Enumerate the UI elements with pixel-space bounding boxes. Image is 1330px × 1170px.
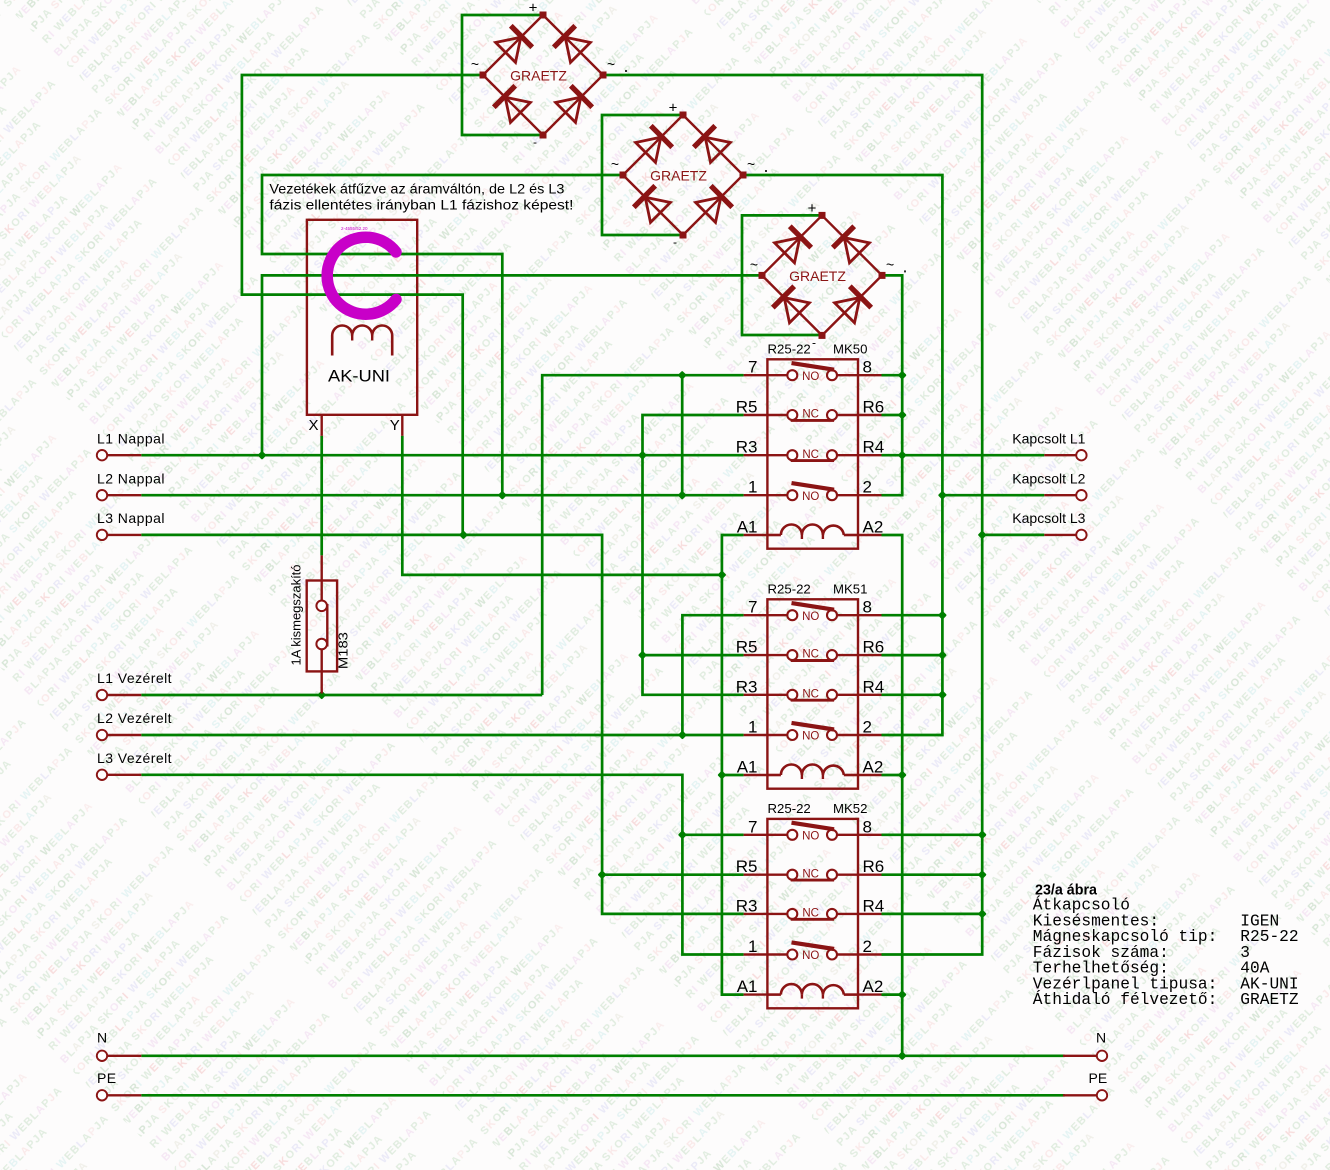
junction node at 942.4,655.1 bbox=[938, 651, 947, 660]
svg-text:X: X bbox=[308, 417, 318, 434]
svg-text:A1: A1 bbox=[737, 758, 758, 777]
junction node at 682.4,735 bbox=[678, 730, 687, 739]
svg-text:L2 Nappal: L2 Nappal bbox=[97, 470, 165, 486]
wire: N bus bbox=[141, 1054, 1064, 1057]
junction node at 602.1,874.7 bbox=[598, 870, 607, 879]
terminal L3 Nappal bbox=[97, 510, 165, 540]
svg-text:R3: R3 bbox=[736, 438, 758, 457]
junction node at 642.5,655.1 bbox=[638, 651, 647, 660]
diode D3 of G2 (upper-right) bbox=[705, 137, 730, 162]
svg-text:A2: A2 bbox=[863, 977, 884, 996]
wire: MK50/MK51 NC feed from L1 Nappal (R5/R3 chain) bbox=[643, 415, 744, 695]
MK52 contact R3-R4 (NC) bbox=[744, 913, 768, 915]
svg-text:fázis ellentétes irányban L1 f: fázis ellentétes irányban L1 fázishoz ké… bbox=[269, 197, 573, 212]
junction node at 942.4,694.8 bbox=[938, 690, 947, 699]
svg-text:7: 7 bbox=[748, 598, 757, 617]
wire: MK52 R4 branch bbox=[882, 913, 983, 916]
MK51 contact 7-8 (NO) bbox=[744, 614, 768, 616]
MK50 coil winding bbox=[767, 534, 781, 537]
junction node at 463.4,534.9 bbox=[459, 530, 468, 539]
junction node at 682.4,834.8 bbox=[678, 830, 687, 839]
wire: L1 Nappal bus bbox=[141, 454, 743, 457]
svg-text:R3: R3 bbox=[736, 896, 758, 915]
wire: MK51 R5 branch bbox=[643, 654, 744, 657]
svg-text:A1: A1 bbox=[737, 977, 758, 996]
svg-text:A2: A2 bbox=[863, 518, 884, 537]
svg-text:1A kismegszakító: 1A kismegszakító bbox=[289, 565, 304, 666]
terminal L3 Vezérelt bbox=[97, 750, 172, 780]
junction node at 902.2,455.2 bbox=[898, 451, 907, 460]
junction node at 902.2,775 bbox=[898, 770, 907, 779]
svg-text:~: ~ bbox=[886, 256, 894, 272]
MK50 contact 7-8 (NO) bbox=[744, 374, 768, 376]
wire: L2 Nappal bus bbox=[141, 494, 743, 497]
wire: MK51 A1 branch bbox=[722, 774, 744, 777]
wire: MK51 R6 branch bbox=[882, 654, 943, 657]
junction node at 982.2,534.9 bbox=[978, 530, 987, 539]
MK52 contact 7-8 (NO) bbox=[744, 834, 768, 836]
svg-text:7: 7 bbox=[748, 817, 757, 836]
MK51 contact R3-R4 (NC) bbox=[744, 694, 768, 696]
diode D4 of G1 (lower-right) bbox=[556, 97, 581, 122]
svg-text:N: N bbox=[1096, 1030, 1106, 1046]
svg-text:Kapcsolt L2: Kapcsolt L2 bbox=[1012, 470, 1085, 486]
svg-text:7: 7 bbox=[748, 358, 757, 377]
diode D4 of G2 (lower-right) bbox=[696, 197, 721, 222]
control panel U1 coil symbol bbox=[332, 326, 392, 356]
svg-text:GRAETZ: GRAETZ bbox=[510, 68, 567, 84]
wire: MK51 A2 branch bbox=[882, 774, 903, 777]
svg-text:R5: R5 bbox=[736, 638, 758, 657]
svg-text:L3 Vezérelt: L3 Vezérelt bbox=[97, 750, 172, 766]
wire: L1 Vezerelt riser to MK50 pin 7 bbox=[542, 375, 743, 695]
wire: bridge G2 bypass frame (+ to -) bbox=[602, 115, 683, 235]
svg-text:Áthidaló félvezető:: Áthidaló félvezető: bbox=[1033, 990, 1218, 1009]
MK51 body bbox=[767, 599, 858, 788]
wire: bridge G1 bypass frame (+ to -) bbox=[462, 15, 543, 135]
svg-text:Y: Y bbox=[390, 417, 400, 434]
svg-text:8: 8 bbox=[863, 598, 872, 617]
wire: bridge G3 right ~ down MK50 output column to pin 2 bbox=[882, 275, 903, 495]
svg-text:M183: M183 bbox=[336, 632, 351, 669]
MK51 contact 1-2 (NO) bbox=[744, 734, 768, 736]
svg-text:~: ~ bbox=[750, 256, 758, 272]
wire: L1 Vezerelt bus bbox=[141, 694, 542, 697]
svg-text:NC: NC bbox=[802, 409, 819, 421]
svg-text:-: - bbox=[812, 335, 816, 349]
svg-text:AK-UNI: AK-UNI bbox=[328, 367, 390, 386]
MK52 body bbox=[767, 819, 858, 1008]
terminal pads of G1 bbox=[540, 12, 547, 19]
svg-text:NC: NC bbox=[802, 649, 819, 661]
svg-text:R4: R4 bbox=[863, 438, 885, 457]
svg-text:2-4555/52.20: 2-4555/52.20 bbox=[341, 226, 368, 231]
diode D1 of G3 (lower-left) bbox=[784, 298, 809, 323]
svg-text:R4: R4 bbox=[863, 677, 885, 696]
MK50 body bbox=[767, 359, 858, 548]
svg-text:L2 Vezérelt: L2 Vezérelt bbox=[97, 710, 172, 726]
svg-text:R25-22: R25-22 bbox=[768, 581, 811, 596]
wire: Kapcsolt L2 line bbox=[942, 494, 1044, 497]
svg-text:R4: R4 bbox=[863, 896, 885, 915]
svg-text:~: ~ bbox=[471, 56, 479, 72]
MK50 contact 1-2 (NO) bbox=[744, 494, 768, 496]
junction node at 902.2,375.2 bbox=[898, 371, 907, 380]
wire: bridge G2 left ~ to CT thread to L2 Nappal node bbox=[262, 175, 623, 495]
svg-text:+: + bbox=[808, 200, 817, 217]
current transformer CT ring bbox=[327, 237, 396, 314]
svg-text:R25-22: R25-22 bbox=[768, 341, 811, 356]
wire: L3 Vezerelt bus down to MK52 pins 7 and 1 bbox=[141, 775, 743, 955]
contactor relay MK51 R25-22 bbox=[736, 581, 884, 788]
junction node at 942.4,615.2 bbox=[938, 611, 947, 620]
svg-text:~: ~ bbox=[607, 56, 615, 72]
wire: L3 Nappal bus down to MK52 R5/R3 bbox=[141, 535, 743, 914]
svg-text:Kapcsolt L1: Kapcsolt L1 bbox=[1012, 430, 1085, 446]
svg-text:NO: NO bbox=[802, 950, 819, 962]
terminal Kapcsolt L1 (right) bbox=[1012, 430, 1086, 460]
svg-text:1: 1 bbox=[748, 937, 757, 956]
circuit breaker M183 1A kismegszakito bbox=[321, 555, 323, 600]
svg-text:GRAETZ: GRAETZ bbox=[789, 268, 846, 284]
terminal Kapcsolt L3 (right) bbox=[1012, 510, 1086, 540]
MK52 contact R5-R6 (NC) bbox=[744, 874, 768, 876]
MK50 contact A1-A2 (COIL) bbox=[744, 534, 768, 536]
wire: coil A1 bus from MK50 A1 down to MK52 A1 bbox=[722, 535, 744, 995]
wire: MK52 R6 branch bbox=[882, 873, 983, 876]
terminal L2 Vezérelt bbox=[97, 710, 172, 740]
terminal L1 Vezérelt bbox=[97, 670, 172, 700]
svg-text:PE: PE bbox=[1089, 1070, 1108, 1086]
svg-text:A1: A1 bbox=[737, 518, 758, 537]
terminal N bbox=[97, 1030, 142, 1062]
junction node at 642.5,455.2 bbox=[638, 451, 647, 460]
junction node at 902.2,994.6 bbox=[898, 990, 907, 999]
terminal pads of G2 bbox=[680, 112, 687, 119]
svg-text:R5: R5 bbox=[736, 857, 758, 876]
pin Y stub of U1 bbox=[401, 415, 403, 436]
svg-text:-: - bbox=[533, 135, 537, 149]
terminal PE (right) bbox=[1063, 1070, 1107, 1101]
svg-text:Vezetékek átfűzve az áramváltó: Vezetékek átfűzve az áramváltón, de L2 é… bbox=[269, 181, 564, 196]
svg-text:1: 1 bbox=[748, 718, 757, 737]
svg-text:R3: R3 bbox=[736, 677, 758, 696]
MK50 contact R3-R4 (NC) bbox=[744, 454, 768, 456]
wire: MK51 pin 8 branch bbox=[882, 614, 943, 617]
wire: MK52 R5 branch bbox=[602, 873, 744, 876]
rectifier bridge G2 GRAETZ bbox=[611, 100, 767, 250]
svg-text:MK51: MK51 bbox=[833, 581, 867, 596]
MK52 contact 1-2 (NO) bbox=[744, 953, 768, 955]
wire: MK50 pin7-pin1 tie bbox=[681, 375, 684, 495]
contactor relay MK50 R25-22 bbox=[736, 341, 884, 548]
wire: bridge G3 left ~ to CT thread to L1 Nappal node bbox=[262, 275, 762, 455]
svg-text:NO: NO bbox=[802, 731, 819, 743]
junction node at 902.2,415 bbox=[898, 410, 907, 419]
wire: bridge G1 left ~ to CT thread to L3 Nappal node bbox=[242, 75, 483, 535]
svg-text:PE: PE bbox=[97, 1070, 117, 1086]
junction node at 982.2,913.9 bbox=[978, 909, 987, 918]
svg-text:+: + bbox=[669, 100, 678, 117]
wire: MK51 pin7-pin1 tie bbox=[682, 615, 743, 735]
rectifier bridge G3 GRAETZ bbox=[750, 200, 906, 350]
svg-text:NO: NO bbox=[802, 371, 819, 383]
wire: PE bus bbox=[141, 1094, 1064, 1097]
svg-text:GRAETZ: GRAETZ bbox=[1240, 991, 1299, 1009]
wire: Y output to coil bus bbox=[402, 436, 722, 575]
wire: Kapcsolt L1 line from MK50 R4 bbox=[882, 454, 1045, 457]
MK52 contact A1-A2 (COIL) bbox=[744, 993, 768, 995]
svg-text:GRAETZ: GRAETZ bbox=[650, 168, 707, 184]
svg-text:MK52: MK52 bbox=[833, 801, 867, 816]
MK51 contact R5-R6 (NC) bbox=[744, 654, 768, 656]
wire: X output down to breaker bbox=[320, 436, 323, 556]
junction node at 321.7,695 bbox=[317, 690, 326, 699]
svg-text:R25-22: R25-22 bbox=[768, 801, 811, 816]
svg-text:NC: NC bbox=[802, 868, 819, 880]
terminal pads of G3 bbox=[819, 212, 826, 219]
svg-text:NO: NO bbox=[802, 830, 819, 842]
junction node at 942.4,495.2 bbox=[938, 491, 947, 500]
terminal PE bbox=[97, 1070, 142, 1101]
junction node at 982.2,874.7 bbox=[978, 870, 987, 879]
wire: Kapcsolt L3 line bbox=[982, 534, 1044, 537]
diode D1 of G2 (lower-left) bbox=[645, 197, 670, 222]
terminal Kapcsolt L2 (right) bbox=[1012, 470, 1086, 500]
MK51 contact A1-A2 (COIL) bbox=[744, 774, 768, 776]
svg-text:NC: NC bbox=[802, 449, 819, 461]
terminal L2 Nappal bbox=[97, 470, 165, 500]
svg-text:MK50: MK50 bbox=[833, 341, 867, 356]
diode D4 of G3 (lower-right) bbox=[835, 298, 860, 323]
junction node at 262,455.2 bbox=[257, 451, 266, 460]
junction node at 982.2,834.8 bbox=[978, 830, 987, 839]
svg-text:R5: R5 bbox=[736, 398, 758, 417]
svg-text:NO: NO bbox=[802, 491, 819, 503]
svg-text:NC: NC bbox=[802, 688, 819, 700]
diode D2 of G2 (upper-left) bbox=[636, 137, 661, 162]
diode D1 of G1 (lower-left) bbox=[505, 97, 530, 122]
svg-text:N: N bbox=[97, 1030, 108, 1046]
svg-text:2: 2 bbox=[863, 937, 872, 956]
svg-text:1: 1 bbox=[748, 478, 757, 497]
svg-text:A2: A2 bbox=[863, 758, 884, 777]
junction node at 682.2,375.2 bbox=[678, 371, 687, 380]
wire: MK52 pin 8 branch bbox=[882, 833, 983, 836]
MK50 contact R5-R6 (NC) bbox=[744, 414, 768, 416]
svg-text:L1 Nappal: L1 Nappal bbox=[97, 430, 165, 446]
wire: bridge G2 right ~ down to Kapcsolt L2 node and MK51 output column bbox=[743, 175, 942, 735]
svg-text:R6: R6 bbox=[863, 398, 885, 417]
terminal L1 Nappal bbox=[97, 430, 165, 460]
diode D3 of G3 (upper-right) bbox=[844, 238, 869, 263]
svg-text:R6: R6 bbox=[863, 857, 885, 876]
junction node at 682.2,495.2 bbox=[678, 491, 687, 500]
svg-text:NO: NO bbox=[802, 611, 819, 623]
svg-text:L3 Nappal: L3 Nappal bbox=[97, 510, 165, 526]
diode D3 of G1 (upper-right) bbox=[565, 37, 590, 62]
MK52 coil winding bbox=[767, 993, 781, 996]
contactor relay MK52 R25-22 bbox=[736, 801, 884, 1008]
svg-text:Kapcsolt L3: Kapcsolt L3 bbox=[1012, 510, 1085, 526]
wire: MK52 A2 branch bbox=[882, 993, 903, 996]
rectifier bridge G1 GRAETZ bbox=[471, 0, 627, 149]
svg-text:2: 2 bbox=[863, 718, 872, 737]
wire: bridge G1 right ~ down to Kapcsolt L3 node and MK52 output column bbox=[603, 75, 982, 955]
wire: MK51 R4 branch bbox=[882, 693, 943, 696]
svg-text:8: 8 bbox=[863, 817, 872, 836]
terminal N (right) bbox=[1063, 1030, 1107, 1062]
junction node at 502.3,495.2 bbox=[498, 491, 507, 500]
wire: MK52 pin 7 branch bbox=[682, 833, 743, 836]
wire: MK50 R6 branch bbox=[882, 414, 903, 417]
junction node at 721.9,775 bbox=[717, 770, 726, 779]
MK51 coil winding bbox=[767, 774, 781, 777]
svg-text:~: ~ bbox=[747, 156, 755, 172]
svg-text:R6: R6 bbox=[863, 638, 885, 657]
junction node at 902.2,1055.8 bbox=[898, 1051, 907, 1060]
diode D2 of G3 (upper-left) bbox=[775, 238, 800, 263]
wire: MK50 pin 8 branch bbox=[882, 374, 903, 377]
junction node at 721.9,574.9 bbox=[717, 570, 726, 579]
control panel U1 AK-UNI box bbox=[307, 220, 417, 415]
pin X stub of U1 bbox=[321, 415, 323, 436]
svg-text:8: 8 bbox=[863, 358, 872, 377]
svg-text:~: ~ bbox=[611, 156, 619, 172]
svg-text:+: + bbox=[529, 0, 538, 17]
svg-text:L1 Vezérelt: L1 Vezérelt bbox=[97, 670, 172, 686]
svg-text:-: - bbox=[673, 235, 677, 249]
svg-text:NC: NC bbox=[802, 908, 819, 920]
wire: bridge G3 bypass frame (+ to -) bbox=[742, 215, 822, 335]
wire: coil A2 bus from MK50 A2 down to N bbox=[882, 535, 903, 1056]
diode D2 of G1 (upper-left) bbox=[496, 37, 521, 62]
svg-text:2: 2 bbox=[863, 478, 872, 497]
wire: L2 Vezerelt bus to MK51 pin 1 bbox=[141, 734, 743, 737]
